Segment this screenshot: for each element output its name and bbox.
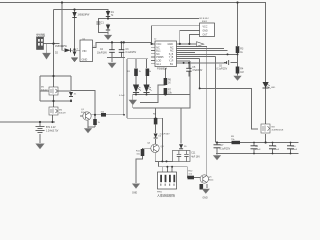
svg-text:9014: 9014 xyxy=(81,112,87,114)
svg-text:9014: 9014 xyxy=(209,180,215,182)
diode D5 above C11 xyxy=(179,144,187,149)
svg-text:47uF/16V: 47uF/16V xyxy=(192,70,202,72)
wire q1 cluster xyxy=(80,115,124,128)
ic U2 xyxy=(154,39,177,71)
led LED1 xyxy=(133,85,139,93)
diode D2 horizontal to VIN xyxy=(55,46,71,54)
ground c7 xyxy=(214,156,221,160)
svg-text:GND: GND xyxy=(82,58,88,62)
diode D4 xyxy=(154,134,162,139)
resistor R11 xyxy=(136,149,144,156)
wire q5 base xyxy=(194,177,200,179)
wire m1 block xyxy=(40,76,71,107)
wire second rail xyxy=(54,10,200,44)
resistor R4 xyxy=(236,67,244,74)
svg-text:1M: 1M xyxy=(240,72,243,74)
wire q4 emitter xyxy=(154,153,156,162)
wire led string B xyxy=(146,59,148,95)
wire cap C3 stems xyxy=(121,42,123,57)
svg-text:4uF 16V: 4uF 16V xyxy=(191,157,200,159)
svg-text:BT1 4.2V: BT1 4.2V xyxy=(46,127,56,129)
ground battery xyxy=(36,144,44,149)
led module rails xyxy=(119,69,152,98)
capacitor C3 xyxy=(119,49,137,54)
wire ic left pins xyxy=(151,44,155,64)
svg-text:OUT: OUT xyxy=(203,35,208,37)
wire R3 column xyxy=(231,3,238,76)
wire q5 emitter xyxy=(206,184,208,188)
svg-text:人体感应模块: 人体感应模块 xyxy=(157,193,175,198)
wire vin path xyxy=(62,49,80,51)
svg-text:0.1uF: 0.1uF xyxy=(274,149,280,151)
mosfet M2 xyxy=(49,107,66,115)
svg-text:VIN: VIN xyxy=(82,49,86,53)
wire pir pins up xyxy=(163,167,172,172)
resistor R2 xyxy=(146,69,150,77)
diode D1 top (x108) xyxy=(106,11,115,17)
transistor Q5 xyxy=(200,175,214,183)
svg-text:34C02: 34C02 xyxy=(41,90,48,92)
capacitor C2 xyxy=(97,49,115,55)
transistor Q1 xyxy=(81,109,91,120)
capacitor C9 xyxy=(269,146,280,151)
wire ic right pins xyxy=(177,44,238,63)
ground under caps xyxy=(108,63,116,68)
resistor R1 xyxy=(134,69,138,77)
zener DZ1 right of M1 xyxy=(69,92,77,97)
wire R6R7 chain xyxy=(140,68,165,103)
resistor R8 xyxy=(153,114,170,136)
wire 47uF stem xyxy=(188,63,190,77)
wire r11 chain xyxy=(136,148,151,183)
wire c11 stem xyxy=(180,108,182,151)
wire bottom rails xyxy=(216,143,299,154)
svg-text:0.1uF/25V: 0.1uF/25V xyxy=(220,149,231,151)
resistor R9 xyxy=(231,136,240,144)
wire led bottom xyxy=(133,95,190,109)
led LED2 xyxy=(143,85,149,93)
svg-text:1N5819PW: 1N5819PW xyxy=(78,15,91,17)
wire led rail top xyxy=(127,59,162,162)
svg-text:0.1uF/25V: 0.1uF/25V xyxy=(126,52,137,54)
ground under R4 xyxy=(234,76,241,80)
svg-text:B1 R-61C: B1 R-61C xyxy=(200,18,210,20)
wire bus pir xyxy=(155,161,187,177)
junction dots xyxy=(61,1,63,3)
svg-text:10uF/16V: 10uF/16V xyxy=(97,53,107,55)
svg-text:0.1uF: 0.1uF xyxy=(292,149,298,151)
capacitor C5 47uF xyxy=(186,67,203,72)
solar panel PV1 xyxy=(36,32,45,50)
ground under D2v xyxy=(105,35,112,39)
svg-text:B101: B101 xyxy=(202,21,208,23)
wire m1 out right xyxy=(71,91,95,115)
wire m3 source xyxy=(265,134,267,143)
diode D2v (x108 lower) xyxy=(106,24,110,32)
svg-text:GND: GND xyxy=(132,193,137,195)
capacitor C7 xyxy=(214,145,231,151)
ground under led xyxy=(129,100,136,105)
wire led string A xyxy=(135,59,137,95)
diode D3 (x74.5 vertical) xyxy=(72,12,90,18)
wire cap bottom xyxy=(107,58,125,62)
svg-text:1.2Ah(3.7)V: 1.2Ah(3.7)V xyxy=(46,130,59,133)
resistor R3 xyxy=(236,46,244,54)
wire solar to node xyxy=(44,44,60,76)
wire top rail xyxy=(0,3,266,125)
resistor R5 xyxy=(101,112,107,117)
svg-text:0.1uF: 0.1uF xyxy=(119,95,125,97)
svg-text:GL1: GL1 xyxy=(156,63,161,66)
svg-text:4.7uF/16V: 4.7uF/16V xyxy=(160,134,171,136)
capacitor C10 xyxy=(287,146,298,151)
svg-text:1N5819PW: 1N5819PW xyxy=(55,46,68,48)
svg-text:34C09: 34C09 xyxy=(59,113,66,115)
cap box C11 xyxy=(172,151,200,162)
svg-text:PS6892A: PS6892A xyxy=(157,68,168,71)
svg-text:4L39NG2x8: 4L39NG2x8 xyxy=(272,130,284,132)
capacitor C8 xyxy=(251,146,262,151)
wire S_B down xyxy=(206,46,208,173)
resistor R6 xyxy=(164,78,172,85)
svg-text:VCC: VCC xyxy=(203,27,208,29)
svg-text:1K: 1K xyxy=(168,83,171,85)
svg-text:光伏板: 光伏板 xyxy=(36,32,45,37)
capacitor C6 xyxy=(217,60,229,71)
wire q5 collector xyxy=(206,168,208,175)
zener under vin node xyxy=(71,52,77,62)
wire c7 chain xyxy=(216,143,218,155)
wire C1 loop xyxy=(98,19,108,35)
battery BT1 xyxy=(36,127,59,133)
resistor R12 xyxy=(188,171,195,180)
resistor R6b vertical xyxy=(93,119,101,125)
arrow out pin1 xyxy=(197,42,204,47)
ground r11 xyxy=(132,184,140,195)
wire ic left nest xyxy=(152,26,200,44)
resistor R7 xyxy=(164,88,173,95)
wire B1 down xyxy=(189,61,191,95)
wire caps c8c9c10 xyxy=(254,143,291,154)
wire led power vertical xyxy=(123,42,125,114)
wire Y_R down xyxy=(215,56,217,142)
wire regulator out rail xyxy=(93,42,153,47)
mosfet M1 xyxy=(41,87,58,96)
transistor Q4 xyxy=(147,143,164,153)
ground q1 xyxy=(85,129,92,133)
svg-text:GND: GND xyxy=(203,31,208,33)
svg-text:GND: GND xyxy=(203,198,208,200)
regulator U1 xyxy=(77,39,96,62)
led D6 right column xyxy=(263,82,276,89)
wire battery rail xyxy=(0,122,55,126)
ground under panel xyxy=(43,44,51,59)
svg-text:0.1uF: 0.1uF xyxy=(255,149,261,151)
B101 module xyxy=(200,18,215,37)
mosfet M3 xyxy=(261,124,284,133)
svg-text:0.1uF/25V: 0.1uF/25V xyxy=(217,69,228,71)
wire battery gnd xyxy=(39,134,41,143)
wire mid rail xyxy=(200,58,258,129)
wire r8 column xyxy=(155,108,157,144)
wire cap C2 stems xyxy=(111,42,113,57)
wire diode column D3 xyxy=(62,3,75,57)
diode q5 emitter xyxy=(200,184,204,190)
svg-text:LED: LED xyxy=(271,87,276,89)
ground q5 xyxy=(202,189,209,200)
pir module xyxy=(157,172,177,198)
capacitor C1 xyxy=(96,22,104,25)
wire m2 down xyxy=(52,115,54,122)
